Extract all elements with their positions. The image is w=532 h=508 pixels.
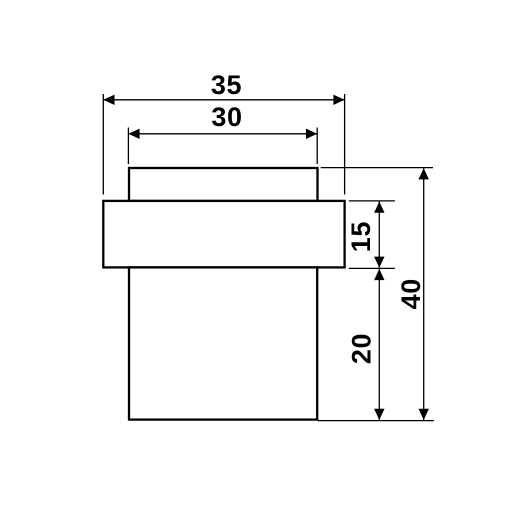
arrowhead top of dim 15 [374,202,384,213]
extension line top of dim 15 [349,200,395,202]
dimension line 20 [378,269,380,420]
top cap rectangle (30 wide part) [129,168,318,201]
arrowhead right of dim 35 [333,95,344,105]
arrowhead left of dim 30 [128,129,139,139]
arrowhead left of dim 35 [103,95,114,105]
dimension line 40 [423,168,425,420]
extension line left of dim 35 [102,94,104,195]
arrowhead top of dim 40 [419,168,429,179]
svg-text:35: 35 [211,70,242,100]
dimension line 15 [378,202,380,268]
arrowhead top of dim 20 [374,269,384,280]
bottom body rectangle (20 tall part) [129,267,317,419]
middle flange rectangle (35 wide, 15 tall part) [103,201,344,268]
arrowhead right of dim 30 [306,129,317,139]
arrowhead bottom of dim 40 [419,409,429,420]
dimension line 30 [128,133,317,135]
extension line right of dim 30 [316,128,318,165]
svg-text:30: 30 [211,102,242,132]
extension line right of dim 35 [344,94,346,195]
svg-text:40: 40 [396,278,426,309]
extension line bottom of dim 15 / top of dim 20 [349,267,395,269]
extension line bottom of dims 20 and 40 [318,420,434,422]
svg-text:20: 20 [347,333,377,364]
extension line left of dim 30 [127,128,129,165]
extension line top of dim 40 [321,167,433,169]
svg-text:15: 15 [346,221,376,252]
dimension line 35 [103,99,344,101]
arrowhead bottom of dim 15 [374,257,384,268]
arrowhead bottom of dim 20 [374,409,384,420]
